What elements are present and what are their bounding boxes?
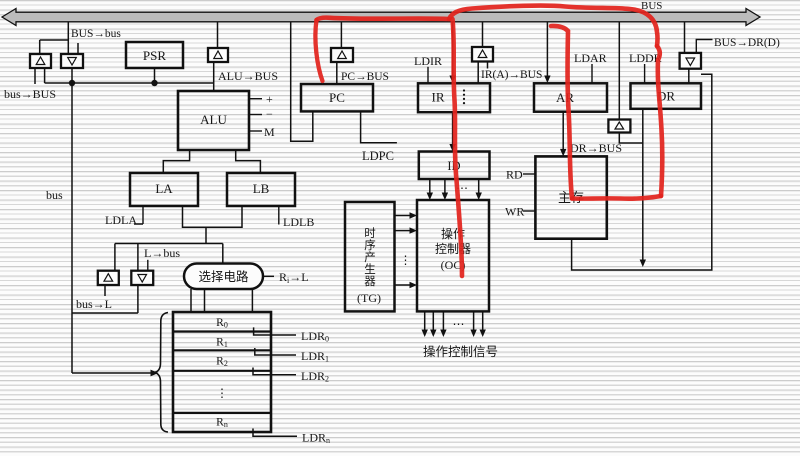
wire PC increment loop to BUS	[291, 22, 313, 141]
wire PC driver to PC	[336, 62, 338, 84]
label LDR0	[301, 329, 329, 344]
svg-text:产: 产	[364, 250, 376, 264]
wire ID to OC arrow 3	[476, 179, 482, 200]
register IR	[418, 83, 490, 112]
wire ID to OC arrow 2	[442, 179, 448, 200]
svg-text:PSR: PSR	[143, 48, 166, 63]
driver IR(A)→BUS (up triangle)	[472, 47, 493, 62]
controller OC 操作控制器	[417, 200, 489, 311]
label bus	[46, 188, 63, 202]
selector 选择电路 (stadium)	[184, 264, 263, 290]
svg-text:操作控制信号: 操作控制信号	[423, 344, 498, 359]
wire LDDR stub	[644, 64, 646, 83]
register DR	[631, 83, 702, 109]
label BUS→DR(D)	[714, 37, 780, 49]
label RD	[506, 168, 523, 182]
svg-text:生: 生	[364, 262, 376, 276]
wire PC driver to BUS	[340, 22, 342, 48]
pin M	[249, 125, 275, 139]
svg-text:WR: WR	[505, 205, 524, 219]
svg-text:控制器: 控制器	[435, 242, 471, 256]
wire ID to OC arrow 1	[427, 179, 433, 200]
label bus→L	[76, 297, 112, 311]
svg-text:R2: R2	[216, 356, 228, 369]
svg-text:M: M	[264, 125, 275, 139]
register Rn	[216, 417, 228, 430]
svg-text:PC→BUS: PC→BUS	[341, 71, 389, 83]
svg-text:R1: R1	[216, 337, 228, 350]
wire TG to OC arrow 1	[395, 212, 418, 218]
wire internal bus horizontal	[45, 82, 214, 84]
wire AR to memory	[560, 112, 566, 157]
driver PC→BUS (up triangle)	[331, 48, 353, 62]
wire DR driver to DR line	[619, 133, 643, 144]
svg-text:PC: PC	[329, 90, 345, 105]
svg-text:LDPC: LDPC	[362, 149, 394, 163]
label LDR1	[301, 349, 329, 364]
latch LB	[227, 173, 295, 206]
wire L line horizontal	[115, 244, 223, 271]
annotation red marker IR vertical	[453, 19, 463, 276]
svg-text:时: 时	[364, 227, 376, 240]
wire LDRn	[253, 429, 297, 437]
svg-text:Ri→L: Ri→L	[279, 270, 309, 285]
wire OC output arrow 5	[480, 311, 486, 337]
wire LDLA stub	[134, 206, 143, 224]
svg-text:AR: AR	[556, 90, 574, 105]
svg-text:器: 器	[364, 275, 376, 288]
register R1	[216, 337, 228, 350]
dots TG to OC	[400, 253, 412, 267]
wire BUS to DR driver	[684, 22, 686, 53]
label BUS→bus	[71, 28, 121, 40]
svg-text:IR: IR	[432, 90, 445, 105]
wire selector to register file	[191, 289, 252, 312]
driver L→bus (down triangle)	[131, 271, 153, 285]
node junction dot bus line left	[69, 80, 75, 86]
wire IR driver to IR	[478, 62, 487, 84]
wire IR to ID	[449, 112, 455, 151]
wire RD tick	[523, 173, 535, 175]
wire LDPC	[361, 111, 397, 142]
svg-text:⋯: ⋯	[453, 317, 465, 331]
driver BUS→DR(D) (down triangle)	[680, 53, 701, 69]
annotation red marker right vertical	[657, 46, 662, 196]
wire bus to register file (arrow into brace)	[72, 370, 159, 377]
driver bus→L (up triangle)	[98, 271, 119, 285]
wire L→bus tick	[147, 260, 149, 270]
wire PSR to bus line	[154, 68, 156, 83]
wire LA LB to L select line	[183, 206, 243, 244]
wire BUS→DR(D) pointer	[696, 40, 712, 53]
svg-text:BUS→DR(D): BUS→DR(D)	[714, 37, 780, 49]
svg-text:⋮: ⋮	[216, 386, 228, 400]
svg-text:L→bus: L→bus	[144, 246, 180, 260]
driver bus→BUS (up triangle)	[30, 54, 51, 68]
wire bus branch to L driver	[72, 285, 138, 313]
wire TG to OC arrow 3	[395, 282, 418, 288]
svg-text:LDLA: LDLA	[105, 213, 137, 227]
decoder ID	[419, 152, 490, 180]
wire BUS drop to left drivers	[40, 22, 78, 54]
wire selector right tick	[263, 275, 274, 277]
dots ID to OC	[456, 181, 468, 195]
wire LDR1	[255, 348, 296, 355]
label Ri→L	[279, 270, 309, 285]
svg-text:Rn: Rn	[216, 417, 228, 430]
svg-text:bus: bus	[46, 188, 63, 202]
svg-text:bus→L: bus→L	[76, 297, 112, 311]
svg-text:LDR0: LDR0	[301, 329, 329, 344]
bus BUS (top system bus, double arrow)	[2, 9, 760, 26]
register AR	[534, 83, 607, 111]
label LDIR	[414, 54, 442, 68]
node junction dot PSR	[151, 80, 157, 86]
label LDPC	[362, 149, 394, 163]
wire OC output arrow 4	[470, 311, 476, 337]
wire OC output arrow 3	[440, 311, 446, 337]
annotation red marker bottom horizontal	[572, 196, 661, 199]
svg-text:LDR1: LDR1	[301, 349, 329, 364]
wire IR driver to BUS	[482, 22, 484, 47]
pin −	[249, 107, 273, 121]
wire bus vertical line (internal bus)	[71, 83, 73, 373]
wire ALU to LA	[163, 150, 189, 173]
svg-text:选择电路: 选择电路	[198, 269, 249, 284]
wire ALU driver to ALU	[213, 62, 215, 91]
svg-text:LA: LA	[155, 181, 173, 196]
annotation red marker top loop	[449, 6, 658, 46]
memory 主存	[535, 156, 606, 238]
wire LDR2	[253, 368, 296, 375]
label LDRn	[302, 431, 330, 446]
svg-text:LDAR: LDAR	[574, 51, 607, 65]
wire LDLB stub	[278, 206, 280, 225]
annotation red marker middle vertical	[551, 26, 572, 199]
label WR	[505, 205, 524, 219]
pin +	[249, 92, 273, 106]
svg-text:LDLB: LDLB	[283, 215, 314, 229]
svg-text:LB: LB	[253, 181, 270, 196]
svg-text:bus→BUS: bus→BUS	[4, 87, 56, 101]
register PSR	[126, 42, 183, 68]
svg-text:−: −	[266, 107, 273, 121]
wire BUS to AR (load)	[544, 22, 550, 83]
svg-text:(TG): (TG)	[357, 291, 381, 305]
wire ALU driver to BUS	[217, 22, 219, 48]
label LDAR	[574, 51, 607, 65]
label LDLA	[105, 213, 137, 227]
svg-text:ALU: ALU	[200, 112, 227, 127]
dots OC outputs	[453, 317, 465, 331]
wire ALU to LB	[236, 150, 261, 173]
wire bus→BUS stub	[34, 68, 36, 84]
svg-text:LDRn: LDRn	[302, 431, 330, 446]
svg-text:RD: RD	[506, 168, 523, 182]
svg-text:LDR2: LDR2	[301, 369, 329, 384]
svg-text:+: +	[266, 92, 273, 106]
label LDR2	[301, 369, 329, 384]
label IR(A)→BUS	[481, 69, 542, 81]
svg-text:IR(A)→BUS: IR(A)→BUS	[481, 69, 542, 81]
annotation red marker stroke along bus	[317, 18, 450, 20]
label LDLB	[283, 215, 314, 229]
wire left drivers to internal bus line	[45, 68, 72, 83]
wire memory data loop	[572, 74, 712, 270]
wire BUS to IR (load)	[449, 22, 455, 83]
driver BUS→bus (down triangle)	[61, 54, 83, 68]
svg-text:BUS→bus: BUS→bus	[71, 28, 121, 40]
wire DR driver to DR	[688, 69, 690, 84]
wire OC output arrow 2	[430, 311, 436, 337]
wire DR to memory data line	[640, 109, 646, 267]
label DR→BUS	[570, 141, 622, 155]
svg-text:ALU→BUS: ALU→BUS	[218, 69, 278, 83]
annotation red marker stroke PC hook	[315, 20, 322, 81]
wire bus→L stub	[104, 285, 106, 296]
label ALU→BUS	[218, 69, 278, 83]
svg-text:DR→BUS: DR→BUS	[570, 141, 622, 155]
wire WR tick	[523, 210, 535, 212]
op-amp ALU	[178, 91, 249, 150]
wire TG to OC arrow 2	[395, 227, 418, 233]
register R2	[216, 356, 228, 369]
label BUS	[641, 0, 662, 12]
generator TG 时序产生器	[345, 202, 395, 311]
wire LDIR stub	[427, 67, 429, 84]
wire LDAR stub	[591, 64, 593, 83]
label LDDR	[629, 51, 662, 65]
label bus→BUS	[4, 87, 56, 101]
svg-text:序: 序	[364, 238, 376, 252]
brace register file select	[154, 313, 168, 433]
register R0	[216, 317, 228, 330]
svg-text:R0: R0	[216, 317, 228, 330]
label PC→BUS	[341, 71, 389, 83]
dots register file	[216, 386, 228, 400]
register file R0..Rn box	[173, 312, 271, 432]
driver ALU→BUS (up triangle)	[208, 48, 228, 62]
svg-text:⋮: ⋮	[400, 253, 412, 267]
register PC	[301, 84, 373, 111]
label 操作控制信号	[423, 344, 498, 359]
latch LA	[130, 173, 198, 206]
wire LDR0	[254, 327, 296, 335]
driver DR→BUS (up triangle)	[608, 120, 630, 133]
wire OC output arrow 1	[422, 311, 428, 337]
label L→bus	[144, 246, 180, 260]
wire DR driver to BUS	[618, 22, 620, 120]
svg-text:LDIR: LDIR	[414, 54, 442, 68]
